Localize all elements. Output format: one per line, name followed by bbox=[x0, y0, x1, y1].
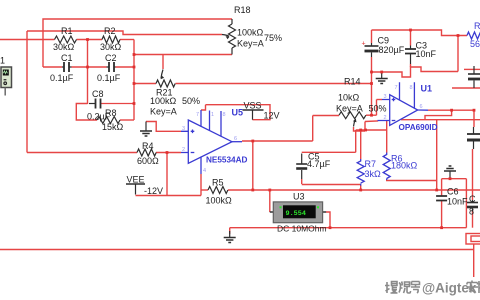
svg-text:VEE: VEE bbox=[127, 175, 145, 185]
ground G1 near U5 bbox=[140, 122, 152, 137]
svg-text:C1: C1 bbox=[61, 53, 73, 63]
svg-text:Key=A: Key=A bbox=[237, 39, 264, 49]
svg-text:C: C bbox=[469, 194, 476, 204]
wire R4 feed bbox=[27, 152, 137, 154]
junction at 382,72 bbox=[380, 71, 383, 74]
wire R6 top bbox=[386, 121, 388, 153]
wire input vertical to R4 bbox=[26, 31, 28, 153]
wire U5 vcc staircase bbox=[201, 105, 206, 110]
wire C5 top row bbox=[302, 151, 356, 153]
wire box right branch bbox=[465, 179, 467, 228]
wire feedback vertical bbox=[436, 120, 438, 190]
wire R21 right long to C9 node bbox=[176, 83, 372, 85]
wire ground G2 drop bbox=[229, 228, 231, 234]
wire C5 top riser bbox=[355, 130, 357, 152]
resistor R at right edge bbox=[467, 32, 480, 39]
svg-text:8: 8 bbox=[410, 85, 413, 91]
wire minus node row bbox=[356, 129, 387, 131]
junction at 134,54 bbox=[133, 53, 136, 56]
wire R8 right bbox=[120, 119, 134, 121]
wire R14 wiper link bbox=[354, 127, 366, 131]
capacitor C6 bbox=[436, 196, 447, 201]
wire C1 right C2 left bbox=[72, 66, 107, 68]
wire bottom rail2 bbox=[230, 227, 467, 229]
wire R6 bottom row bbox=[387, 179, 437, 182]
wire top cap rail bbox=[372, 30, 468, 36]
wire dangling right lower bbox=[452, 87, 480, 89]
svg-text:9.554: 9.554 bbox=[286, 210, 306, 218]
svg-text:2: 2 bbox=[182, 147, 185, 153]
svg-text:C9: C9 bbox=[378, 36, 390, 46]
junction at 134,84 bbox=[133, 82, 136, 85]
wire C2 right bbox=[116, 66, 135, 68]
wire C6 box top bbox=[442, 178, 467, 180]
svg-text:4.7µF: 4.7µF bbox=[307, 159, 331, 169]
wire U5 out up to R14 bbox=[312, 116, 314, 142]
svg-text:820µF: 820µF bbox=[379, 45, 405, 55]
wire C3 bottom stub bbox=[410, 64, 412, 67]
wire C9 bottom vertical to R14 node bbox=[371, 57, 373, 115]
svg-text:50%: 50% bbox=[182, 96, 200, 106]
junction at 361,130 bbox=[359, 129, 362, 132]
wire R4 to U5 minus bbox=[156, 152, 181, 154]
wire C5 bottom red bbox=[301, 179, 303, 184]
multimeter U3 bbox=[270, 202, 326, 223]
svg-text:OPA690ID: OPA690ID bbox=[399, 123, 438, 132]
potentiometer R14 bbox=[339, 112, 366, 127]
wire feedback row bbox=[401, 119, 480, 121]
junction at 452,110 bbox=[450, 109, 453, 112]
wire R21 wiper drop bbox=[162, 55, 164, 70]
svg-text:8: 8 bbox=[223, 112, 226, 118]
svg-text:50%: 50% bbox=[369, 104, 387, 114]
capacitor C5 bbox=[296, 154, 307, 180]
svg-text:2: 2 bbox=[384, 115, 387, 121]
wire R21 left bbox=[134, 83, 156, 85]
junction at 88,40 bbox=[86, 38, 89, 41]
capacitor C3 bbox=[405, 46, 416, 65]
resistor R6 bbox=[383, 153, 390, 181]
wire R1-R2 link bbox=[77, 39, 103, 41]
svg-text:0.1µF: 0.1µF bbox=[50, 73, 74, 83]
svg-text:R18: R18 bbox=[234, 5, 251, 15]
watermark sohu glyph 1 bbox=[385, 282, 398, 294]
wire R2 right bbox=[120, 39, 134, 41]
svg-text:C6: C6 bbox=[447, 187, 459, 197]
wire R5 left stub bbox=[201, 189, 208, 191]
svg-text:VSS: VSS bbox=[244, 101, 262, 111]
wire R18 bottom rail bbox=[134, 54, 232, 56]
svg-text:U5: U5 bbox=[232, 108, 244, 118]
junction at 372,115 bbox=[370, 114, 373, 117]
wire to U1 plus bbox=[377, 99, 383, 101]
resistor R4 bbox=[137, 149, 156, 156]
svg-text:75%: 75% bbox=[264, 33, 282, 43]
svg-text:R1: R1 bbox=[61, 26, 73, 36]
svg-text:R: R bbox=[474, 21, 480, 31]
ground G2 below rail2 bbox=[224, 231, 236, 243]
wire probe drop bbox=[473, 244, 475, 277]
watermark sohu glyph 3 bbox=[411, 282, 420, 294]
wire U3 right drop bbox=[326, 212, 330, 228]
svg-text:1: 1 bbox=[0, 56, 5, 66]
svg-text:3kΩ: 3kΩ bbox=[365, 169, 382, 179]
svg-text:R14: R14 bbox=[344, 77, 361, 87]
junction at 372,72 bbox=[370, 71, 373, 74]
wire C8 right lead bbox=[101, 103, 135, 105]
svg-text:Key=A: Key=A bbox=[336, 104, 363, 114]
wire C8 R8 left loop bbox=[76, 104, 97, 121]
wire right edge cap2 feed bbox=[473, 110, 475, 127]
junction at 366,130 bbox=[364, 129, 367, 132]
wire output feedback drop bbox=[252, 141, 254, 190]
op-amp U1 bbox=[378, 82, 429, 125]
svg-text:100kΩ: 100kΩ bbox=[237, 28, 264, 38]
svg-text:6: 6 bbox=[420, 104, 423, 110]
junction at 167,152 bbox=[166, 151, 169, 154]
svg-text:R4: R4 bbox=[142, 141, 154, 151]
junction at 410,30 bbox=[409, 29, 412, 32]
wire input to R1 bbox=[0, 39, 55, 41]
wire C9 top bbox=[371, 30, 373, 43]
junction at 270,190 bbox=[268, 189, 271, 192]
watermark sohu glyph 2 bbox=[399, 282, 411, 294]
junction at 474,110 bbox=[473, 109, 476, 112]
wire C6 lower lead bbox=[441, 201, 443, 228]
watermark an glyph bbox=[467, 281, 479, 294]
wire U5 pin4 drop bbox=[200, 174, 202, 196]
svg-text:10kΩ: 10kΩ bbox=[338, 93, 360, 103]
junction at 134,67 bbox=[133, 66, 136, 69]
svg-text:U3: U3 bbox=[293, 192, 305, 202]
wire U1 minus riser bbox=[364, 122, 366, 132]
capacitor C7 polarized bbox=[467, 200, 478, 211]
junction at 450,179 bbox=[449, 177, 452, 180]
svg-text:R7: R7 bbox=[365, 159, 377, 169]
junction at 442,228 bbox=[440, 226, 443, 229]
junction at 372,84 bbox=[370, 82, 373, 85]
wire U1 plus riser bbox=[376, 100, 378, 116]
wire U3 left riser bbox=[269, 190, 271, 212]
svg-text:0.1µF: 0.1µF bbox=[97, 73, 121, 83]
wire C6 branch bbox=[441, 179, 443, 196]
wire R2 output vertical bbox=[133, 40, 135, 121]
resistor R5 bbox=[208, 187, 228, 194]
capacitor C2 bbox=[107, 62, 116, 72]
resistor R2 bbox=[102, 36, 120, 43]
wire bottom rail3 full width bbox=[0, 249, 474, 251]
wire to U1 minus bbox=[365, 121, 378, 122]
wire U5 output row bbox=[242, 140, 313, 142]
wire C1C2 junction vertical bbox=[87, 40, 89, 105]
wire ground G1 to U5 plus bbox=[146, 122, 181, 132]
svg-text:7: 7 bbox=[395, 85, 398, 91]
wire inverting node drop bbox=[166, 153, 168, 196]
svg-text:10nF: 10nF bbox=[447, 197, 468, 207]
wire VSS loop bbox=[206, 105, 271, 120]
svg-text:30kΩ: 30kΩ bbox=[53, 42, 75, 52]
svg-text:180kΩ: 180kΩ bbox=[391, 161, 418, 171]
op-amp U5 bbox=[181, 110, 242, 174]
wire C1 left bbox=[43, 66, 62, 68]
svg-text:Key=A: Key=A bbox=[150, 107, 177, 117]
capacitor right edge upper bbox=[468, 66, 480, 88]
junction at 361,190 bbox=[359, 189, 362, 192]
wire bottom rail1 R5 to right edge bbox=[228, 189, 480, 191]
junction at 330,228 bbox=[329, 226, 332, 229]
potentiometer R21 bbox=[156, 70, 175, 88]
wire dangling right upper bbox=[464, 68, 480, 70]
ground G4 below C9 bbox=[376, 72, 388, 84]
wire rail to R18 wiper bbox=[27, 31, 222, 35]
power VEE symbol bbox=[126, 184, 145, 195]
svg-text:12V: 12V bbox=[264, 111, 280, 121]
svg-text:3: 3 bbox=[384, 94, 387, 100]
svg-text:DC 10MOhm: DC 10MOhm bbox=[277, 224, 327, 234]
svg-text:10nF: 10nF bbox=[416, 49, 437, 59]
wire to R14 left bbox=[313, 115, 339, 117]
svg-text:100kΩ: 100kΩ bbox=[150, 96, 177, 106]
wire VEE row bbox=[136, 195, 202, 197]
power VSS symbol bbox=[243, 110, 264, 120]
wire output staircase bbox=[425, 110, 452, 120]
wire C5 bottom row to R7 bbox=[302, 184, 361, 186]
function generator XFG1 bbox=[1, 67, 12, 96]
svg-text:R2: R2 bbox=[104, 26, 116, 36]
svg-text:3: 3 bbox=[182, 126, 185, 132]
junction at 253,141 bbox=[251, 140, 254, 143]
svg-text:8: 8 bbox=[469, 207, 474, 217]
wire connector box bbox=[466, 234, 480, 245]
svg-text:4: 4 bbox=[203, 168, 206, 174]
capacitor C1 bbox=[62, 62, 72, 72]
svg-text:C8: C8 bbox=[92, 89, 104, 99]
junction at 437,190 bbox=[435, 189, 438, 192]
svg-text:R5: R5 bbox=[212, 178, 224, 188]
svg-text:NE5534AD: NE5534AD bbox=[206, 156, 248, 165]
watermark tai glyph cut bbox=[479, 281, 480, 293]
wire C3 top red lead bbox=[410, 30, 412, 46]
wire C7 bottom bbox=[472, 210, 474, 228]
svg-text:1: 1 bbox=[211, 112, 214, 118]
svg-text:15kΩ: 15kΩ bbox=[102, 122, 124, 132]
capacitor C9 polarized bbox=[365, 43, 379, 57]
svg-text:6: 6 bbox=[234, 136, 237, 142]
svg-text:30kΩ: 30kΩ bbox=[100, 42, 122, 52]
svg-text:7: 7 bbox=[196, 112, 199, 118]
resistor R7 bbox=[357, 159, 364, 186]
wire right vertical drop bbox=[457, 36, 459, 72]
capacitor C8 bbox=[89, 99, 101, 109]
svg-text:100kΩ: 100kΩ bbox=[206, 196, 233, 206]
wire R14 right to node bbox=[366, 114, 377, 116]
wire ground row with jog bbox=[372, 67, 459, 77]
svg-text:600Ω: 600Ω bbox=[137, 156, 159, 166]
junction at 134,104 bbox=[133, 102, 136, 105]
svg-text:-12V: -12V bbox=[144, 186, 163, 196]
svg-text:U1: U1 bbox=[421, 84, 433, 94]
wire R7 bottom to rail bbox=[360, 185, 362, 190]
svg-text:C2: C2 bbox=[105, 53, 117, 63]
junction at 88,67 bbox=[86, 66, 89, 69]
capacitor right edge mid bbox=[467, 127, 480, 149]
resistor R8 bbox=[97, 117, 120, 124]
resistor R1 bbox=[55, 36, 77, 43]
junction at 253,190 bbox=[251, 189, 254, 192]
svg-text:R8: R8 bbox=[105, 108, 117, 118]
ground G3 inverted above C6 bbox=[444, 166, 456, 179]
wire U1 output row bbox=[428, 109, 474, 111]
svg-text:56: 56 bbox=[470, 39, 480, 49]
wire top rail to R18 top bbox=[43, 19, 232, 67]
junction at 458,36 bbox=[457, 34, 460, 37]
potentiometer R18 bbox=[222, 19, 236, 55]
wire cap2 to C7 bbox=[472, 149, 474, 200]
svg-text:+: + bbox=[362, 41, 366, 48]
wire R7 top bbox=[360, 130, 362, 159]
